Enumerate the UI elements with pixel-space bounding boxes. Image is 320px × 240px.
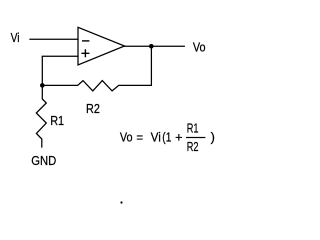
svg-text:Vo: Vo [193, 39, 206, 54]
svg-text:=: = [136, 130, 143, 145]
svg-text:R1: R1 [50, 113, 64, 128]
svg-text:+: + [175, 130, 182, 145]
svg-text:Vi: Vi [11, 32, 20, 45]
svg-text:): ) [211, 130, 215, 145]
svg-text:GND: GND [31, 153, 56, 168]
svg-text:R2: R2 [187, 141, 199, 155]
svg-text:Vi: Vi [151, 130, 161, 145]
svg-text:Vo: Vo [120, 130, 133, 145]
svg-text:R2: R2 [86, 101, 100, 116]
svg-text:(1: (1 [162, 132, 171, 145]
svg-text:R1: R1 [187, 122, 199, 136]
